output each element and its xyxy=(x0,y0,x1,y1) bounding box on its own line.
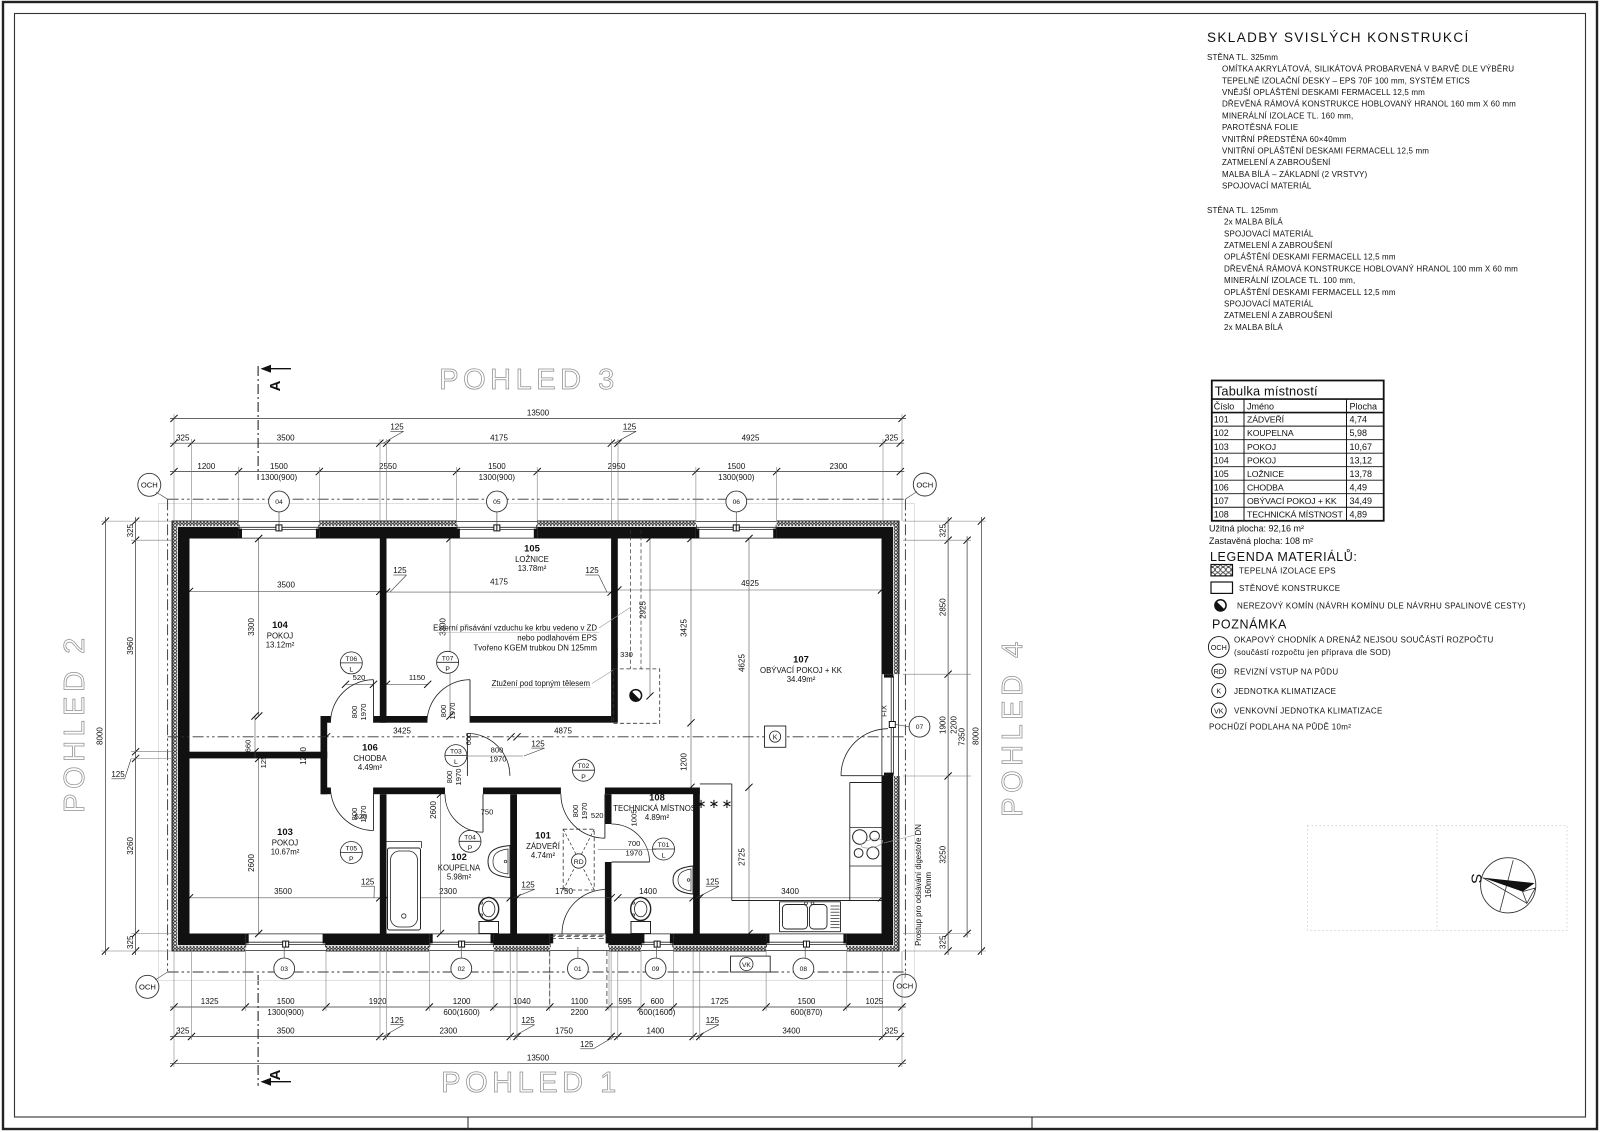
svg-text:104: 104 xyxy=(272,619,288,630)
svg-text:VK: VK xyxy=(742,962,751,969)
svg-text:1970: 1970 xyxy=(448,703,457,720)
svg-text:3300: 3300 xyxy=(247,618,256,636)
window 03 bottom wall xyxy=(245,933,326,952)
axis circle 07 xyxy=(896,716,930,737)
window 06 top wall xyxy=(696,520,777,539)
svg-text:3250: 3250 xyxy=(938,845,947,863)
legend wall box xyxy=(1211,582,1233,593)
chimney symbol xyxy=(630,690,642,702)
svg-text:660: 660 xyxy=(244,740,253,753)
svg-text:4.74m²: 4.74m² xyxy=(531,851,556,860)
svg-text:ZATMELENÍ A ZABROUŠENÍ: ZATMELENÍ A ZABROUŠENÍ xyxy=(1224,311,1333,320)
svg-text:800: 800 xyxy=(439,705,448,718)
svg-text:325: 325 xyxy=(938,935,947,949)
svg-text:325: 325 xyxy=(938,523,947,537)
svg-text:1200: 1200 xyxy=(299,747,308,765)
svg-text:KOUPELNA: KOUPELNA xyxy=(438,864,481,873)
svg-text:S: S xyxy=(1468,873,1485,883)
dim room105 125 right xyxy=(585,566,607,592)
FIX window and terrace door right wall xyxy=(880,674,900,776)
svg-text:LOŽNICE: LOŽNICE xyxy=(1247,469,1284,479)
door T03 label xyxy=(467,746,523,764)
svg-text:T03: T03 xyxy=(450,749,462,756)
dim room103 2600 xyxy=(247,755,262,937)
dim room107 3425-1200 xyxy=(680,535,695,791)
svg-text:4.89m²: 4.89m² xyxy=(645,813,670,822)
compass rose xyxy=(1468,858,1536,913)
svg-text:L: L xyxy=(662,853,666,860)
svg-text:2300: 2300 xyxy=(439,1027,457,1036)
svg-text:4625: 4625 xyxy=(738,654,747,672)
svg-text:3500: 3500 xyxy=(274,887,292,896)
washbasin room102 xyxy=(488,846,510,878)
svg-text:520: 520 xyxy=(591,811,604,820)
svg-text:Prostup pro odsávání digestoře: Prostup pro odsávání digestoře DN xyxy=(914,824,923,946)
room label 101 ZADVERI xyxy=(526,830,561,861)
dim room108 125 leader xyxy=(697,877,720,897)
svg-text:POKOJ: POKOJ xyxy=(1247,442,1276,452)
svg-text:POKOJ: POKOJ xyxy=(272,839,299,848)
dim bottom rowB 125 leader 1 xyxy=(383,1016,404,1037)
dim room108 1400 xyxy=(614,887,697,901)
svg-text:P: P xyxy=(349,856,354,863)
window 04 top wall xyxy=(239,520,320,539)
svg-text:∗∗∗: ∗∗∗ xyxy=(696,796,735,811)
svg-text:05: 05 xyxy=(493,499,501,506)
svg-text:7350: 7350 xyxy=(957,727,966,745)
svg-text:ZÁDVEŘÍ: ZÁDVEŘÍ xyxy=(526,842,561,851)
dim room102 2300 xyxy=(383,887,514,901)
svg-text:106: 106 xyxy=(1214,482,1229,492)
svg-text:4.49m²: 4.49m² xyxy=(358,763,383,772)
svg-text:2600: 2600 xyxy=(247,854,256,872)
dim room105 4175 xyxy=(383,578,615,596)
svg-text:330: 330 xyxy=(620,650,633,659)
svg-text:OMÍTKA AKRYLÁTOVÁ, SILIKÁTOVÁ: OMÍTKA AKRYLÁTOVÁ, SILIKÁTOVÁ PROBARVENÁ… xyxy=(1222,65,1514,74)
svg-text:160mm: 160mm xyxy=(924,872,933,898)
partition wall 101-108 lower xyxy=(605,862,612,934)
svg-text:600: 600 xyxy=(650,997,664,1006)
dim room105 3300 xyxy=(439,535,454,720)
svg-text:3500: 3500 xyxy=(277,1027,295,1036)
svg-text:08: 08 xyxy=(800,966,808,973)
note stiffening text xyxy=(491,670,613,688)
spec block wall 325mm xyxy=(1207,53,1516,191)
axis circle 09 xyxy=(645,947,666,979)
total area lines xyxy=(1209,524,1313,547)
dim room107 2925 xyxy=(639,535,654,700)
svg-text:04: 04 xyxy=(275,499,283,506)
svg-text:TEPELNÁ IZOLACE EPS: TEPELNÁ IZOLACE EPS xyxy=(1239,567,1336,576)
svg-text:1325: 1325 xyxy=(201,997,219,1006)
svg-text:RD: RD xyxy=(1214,667,1224,676)
svg-text:Tabulka místností: Tabulka místností xyxy=(1215,383,1318,398)
chimney dashed enclosure xyxy=(613,669,659,723)
svg-text:13500: 13500 xyxy=(527,409,550,418)
svg-text:4175: 4175 xyxy=(490,433,508,442)
svg-text:Užitná plocha: 92,16 m²: Užitná plocha: 92,16 m² xyxy=(1209,524,1304,534)
svg-text:125: 125 xyxy=(521,1016,535,1025)
svg-text:1725: 1725 xyxy=(711,997,729,1006)
svg-text:VNITŘNÍ OPLÁŠTĚNÍ DESKAMI FERM: VNITŘNÍ OPLÁŠTĚNÍ DESKAMI FERMACELL 12,5… xyxy=(1222,146,1429,155)
dim T06 520 xyxy=(342,673,377,688)
svg-text:VENKOVNÍ JEDNOTKA KLIMATIZACE: VENKOVNÍ JEDNOTKA KLIMATIZACE xyxy=(1234,707,1383,716)
svg-text:3500: 3500 xyxy=(277,581,295,590)
svg-text:2200: 2200 xyxy=(950,716,959,734)
dim left inner chain xyxy=(126,517,139,955)
svg-text:RD: RD xyxy=(574,859,584,866)
svg-text:13.12m²: 13.12m² xyxy=(266,641,295,650)
note exterior air supply text xyxy=(433,607,631,652)
svg-text:VNITŘNÍ PŘEDSTĚNA 60×40mm: VNITŘNÍ PŘEDSTĚNA 60×40mm xyxy=(1222,135,1347,144)
dim bottom rowC 13500 xyxy=(170,1054,906,1067)
svg-text:1005: 1005 xyxy=(630,810,639,827)
svg-text:JEDNOTKA KLIMATIZACE: JEDNOTKA KLIMATIZACE xyxy=(1234,687,1336,696)
svg-text:2300: 2300 xyxy=(439,887,457,896)
svg-text:8000: 8000 xyxy=(972,727,981,745)
room label 107 OBYVACI POKOJ xyxy=(760,654,843,685)
svg-text:1750: 1750 xyxy=(555,1027,573,1036)
note K symbol xyxy=(1212,684,1226,698)
spec block wall 125mm xyxy=(1207,206,1518,332)
door T01 label xyxy=(598,839,656,858)
svg-text:125: 125 xyxy=(706,877,720,886)
air-conditioning unit K xyxy=(765,726,786,747)
svg-text:SPOJOVACÍ MATERIÁL: SPOJOVACÍ MATERIÁL xyxy=(1224,299,1314,308)
svg-text:3425: 3425 xyxy=(393,726,411,735)
svg-text:K: K xyxy=(1216,687,1221,696)
svg-text:OCH: OCH xyxy=(896,982,913,991)
room table Tabulka mistnosti xyxy=(1212,381,1384,521)
room label 104 POKOJ xyxy=(266,619,295,650)
svg-text:Externí přisávání vzduchu ke k: Externí přisávání vzduchu ke krbu vedeno… xyxy=(433,623,597,632)
svg-text:10,67: 10,67 xyxy=(1350,442,1373,452)
dim room107 4925 xyxy=(614,579,885,593)
axis circle 08 xyxy=(793,947,814,979)
svg-text:3400: 3400 xyxy=(781,887,799,896)
window 05 top wall xyxy=(457,520,538,539)
svg-text:125: 125 xyxy=(585,566,599,575)
svg-text:1970: 1970 xyxy=(454,769,463,786)
dim room102 2600 xyxy=(429,791,444,938)
dotted placeholder box xyxy=(1308,826,1568,931)
svg-text:NEREZOVÝ KOMÍN (NÁVRH KOMÍNU D: NEREZOVÝ KOMÍN (NÁVRH KOMÍNU DLE NÁVRHU … xyxy=(1237,602,1526,611)
exterior wall ring with EPS insulation hatch xyxy=(172,521,899,951)
svg-text:09: 09 xyxy=(652,966,660,973)
terrace door swing xyxy=(841,729,888,776)
svg-text:125: 125 xyxy=(706,1016,720,1025)
svg-text:TECHNICKÁ MÍSTNOST: TECHNICKÁ MÍSTNOST xyxy=(613,804,701,813)
svg-text:TECHNICKÁ MÍSTNOST: TECHNICKÁ MÍSTNOST xyxy=(1247,509,1343,519)
svg-text:1400: 1400 xyxy=(647,1027,665,1036)
svg-text:13,78: 13,78 xyxy=(1350,469,1373,479)
svg-text:03: 03 xyxy=(280,966,288,973)
svg-text:2x MALBA BÍLÁ: 2x MALBA BÍLÁ xyxy=(1224,323,1283,332)
svg-text:Zastavěná plocha: 108 m²: Zastavěná plocha: 108 m² xyxy=(1209,536,1313,546)
legend chimney icon xyxy=(1215,600,1226,611)
OCH circle bottom left xyxy=(136,972,168,998)
svg-text:108: 108 xyxy=(649,792,665,803)
dim left 125 leader xyxy=(111,759,131,779)
svg-text:2950: 2950 xyxy=(608,462,626,471)
svg-text:3260: 3260 xyxy=(126,837,135,855)
chimney duct dashed lines xyxy=(631,530,642,669)
svg-text:OCH: OCH xyxy=(139,983,156,992)
svg-text:2725: 2725 xyxy=(738,848,747,866)
title block stub line left xyxy=(467,1117,469,1129)
svg-text:1100: 1100 xyxy=(571,997,589,1006)
svg-text:10.67m²: 10.67m² xyxy=(271,848,300,857)
dim room101 1750 xyxy=(513,887,614,901)
svg-text:325: 325 xyxy=(885,433,899,442)
dim room104 3300 xyxy=(247,535,262,720)
svg-text:KOUPELNA: KOUPELNA xyxy=(1247,428,1294,438)
wall 101-108 top seg xyxy=(605,788,700,795)
svg-text:125: 125 xyxy=(531,739,545,748)
svg-text:1025: 1025 xyxy=(865,997,883,1006)
svg-text:1300(900): 1300(900) xyxy=(718,473,755,482)
svg-text:1500: 1500 xyxy=(798,997,816,1006)
svg-text:101: 101 xyxy=(1214,415,1229,425)
svg-text:POZNÁMKA: POZNÁMKA xyxy=(1212,617,1287,632)
svg-text:125: 125 xyxy=(623,423,637,432)
svg-text:3500: 3500 xyxy=(277,433,295,442)
svg-text:125: 125 xyxy=(111,770,125,779)
svg-text:CHODBA: CHODBA xyxy=(1247,482,1284,492)
svg-text:8000: 8000 xyxy=(96,727,105,745)
svg-text:5.98m²: 5.98m² xyxy=(447,873,472,882)
svg-text:1150: 1150 xyxy=(409,673,425,682)
svg-text:STĚNA TL. 325mm: STĚNA TL. 325mm xyxy=(1207,53,1278,62)
svg-text:1300(900): 1300(900) xyxy=(267,1008,304,1017)
svg-text:P: P xyxy=(445,666,450,673)
svg-text:POKOJ: POKOJ xyxy=(267,632,294,641)
svg-text:2600: 2600 xyxy=(429,801,438,819)
svg-text:T07: T07 xyxy=(442,655,454,662)
svg-text:1500: 1500 xyxy=(727,462,745,471)
svg-text:3400: 3400 xyxy=(782,1027,800,1036)
svg-text:101: 101 xyxy=(535,830,551,841)
svg-text:1200: 1200 xyxy=(453,997,471,1006)
room label 108 TECHNICKA MISTNOST xyxy=(613,792,701,823)
dim right inner chain xyxy=(938,517,951,955)
axis circle 01 xyxy=(568,947,589,979)
room label 102 KOUPELNA xyxy=(438,851,481,882)
dim bottom rowB 125 leader 3 xyxy=(697,1016,720,1037)
corridor bottom wall seg b xyxy=(374,788,446,795)
svg-text:1400: 1400 xyxy=(639,887,657,896)
svg-text:125: 125 xyxy=(361,877,375,886)
svg-text:OPLÁŠTĚNÍ DESKAMI FERMACELL 12: OPLÁŠTĚNÍ DESKAMI FERMACELL 12,5 mm xyxy=(1224,253,1396,262)
svg-text:125: 125 xyxy=(390,423,404,432)
svg-text:4925: 4925 xyxy=(741,579,759,588)
svg-text:OCH: OCH xyxy=(1211,643,1227,652)
svg-text:125: 125 xyxy=(393,566,407,575)
svg-text:106: 106 xyxy=(362,742,378,753)
dim right 7350 xyxy=(957,536,970,937)
svg-text:STĚNOVÉ KONSTRUKCE: STĚNOVÉ KONSTRUKCE xyxy=(1239,584,1340,593)
svg-text:1200: 1200 xyxy=(197,462,215,471)
window 08 kitchen bottom wall xyxy=(766,933,847,952)
svg-text:DŘEVĚNÁ RÁMOVÁ KONSTRUKCE HOBL: DŘEVĚNÁ RÁMOVÁ KONSTRUKCE HOBLOVANÝ HRAN… xyxy=(1222,100,1516,109)
svg-text:PAROTĚSNÁ FOLIE: PAROTĚSNÁ FOLIE xyxy=(1222,123,1298,132)
OCH circle top right xyxy=(905,473,936,499)
attic access RD dashed box xyxy=(563,829,594,890)
corridor bottom wall seg a xyxy=(321,788,331,795)
svg-text:TEPELNĚ IZOLAČNÍ DESKY – EPS 7: TEPELNĚ IZOLAČNÍ DESKY – EPS 70F 100 mm,… xyxy=(1222,76,1470,85)
room label 106 CHODBA xyxy=(353,742,387,773)
svg-text:595: 595 xyxy=(618,997,632,1006)
svg-text:T05: T05 xyxy=(345,846,357,853)
svg-text:4,49: 4,49 xyxy=(1350,482,1368,492)
svg-text:600(870): 600(870) xyxy=(790,1008,822,1017)
svg-text:ZÁDVEŘÍ: ZÁDVEŘÍ xyxy=(1247,415,1285,425)
dim kitchen 3400 xyxy=(696,887,885,901)
dim right outer 8000 xyxy=(972,517,985,955)
svg-text:SKLADBY SVISLÝCH KONSTRUKCÍ: SKLADBY SVISLÝCH KONSTRUKCÍ xyxy=(1207,30,1470,45)
axis circle 06 xyxy=(726,491,747,524)
svg-text:POKOJ: POKOJ xyxy=(1247,455,1276,465)
svg-text:108: 108 xyxy=(1214,509,1229,519)
svg-text:SPOJOVACÍ MATERIÁL: SPOJOVACÍ MATERIÁL xyxy=(1222,182,1312,191)
note RD symbol xyxy=(1212,664,1226,678)
svg-text:POHLED 4: POHLED 4 xyxy=(997,637,1029,816)
note OCH symbol xyxy=(1208,637,1229,658)
svg-text:POHLED 1: POHLED 1 xyxy=(441,1067,620,1099)
svg-text:FIX: FIX xyxy=(880,705,889,717)
dim top row3 xyxy=(170,462,904,482)
dim top row2 125 leader left xyxy=(383,423,404,444)
svg-text:REVIZNÍ VSTUP NA PŮDU: REVIZNÍ VSTUP NA PŮDU xyxy=(1234,667,1338,676)
door T04 corridor-102 xyxy=(445,769,483,853)
svg-text:STĚNA TL. 125mm: STĚNA TL. 125mm xyxy=(1207,206,1278,215)
svg-text:MINERÁLNÍ IZOLACE TL. 100 mm,: MINERÁLNÍ IZOLACE TL. 100 mm, xyxy=(1224,276,1355,285)
svg-text:2925: 2925 xyxy=(639,601,648,619)
svg-text:Ztužení pod topným tělesem: Ztužení pod topným tělesem xyxy=(492,679,590,688)
entrance porch dashed lines xyxy=(550,937,607,1009)
svg-text:325: 325 xyxy=(126,935,135,949)
svg-text:102: 102 xyxy=(451,851,467,862)
svg-text:1300(900): 1300(900) xyxy=(261,473,298,482)
dim room104 3500 xyxy=(186,581,384,595)
svg-text:VNĚJŠÍ OPLÁŠTĚNÍ DESKAMI FERMA: VNĚJŠÍ OPLÁŠTĚNÍ DESKAMI FERMACELL 12,5 … xyxy=(1222,88,1425,97)
legend EPS hatch box xyxy=(1211,565,1233,576)
bathtub room102 xyxy=(387,842,422,931)
svg-text:800: 800 xyxy=(350,808,359,821)
dim bottom rowB 125 leader 2 xyxy=(514,1016,536,1037)
svg-text:A: A xyxy=(267,1069,284,1080)
window 02 bottom wall xyxy=(429,933,494,952)
corridor left wall xyxy=(321,716,328,794)
svg-text:Jméno: Jméno xyxy=(1247,402,1274,412)
dim T07 1150 xyxy=(383,673,431,688)
svg-text:06: 06 xyxy=(733,499,741,506)
svg-text:nebo podlahovém EPS: nebo podlahovém EPS xyxy=(517,634,597,643)
svg-text:1970: 1970 xyxy=(626,849,643,858)
svg-text:1920: 1920 xyxy=(369,997,387,1006)
extension lines bottom xyxy=(174,951,902,1067)
svg-text:2x MALBA BÍLÁ: 2x MALBA BÍLÁ xyxy=(1224,218,1283,227)
svg-text:(součástí rozpočtu jen příprav: (součástí rozpočtu jen příprava dle SOD) xyxy=(1234,648,1391,657)
dim top row2 125 leader right xyxy=(615,423,637,444)
door T05 corridor-103 xyxy=(331,788,374,864)
svg-text:104: 104 xyxy=(1214,455,1229,465)
partition wall 105-107 xyxy=(611,539,618,723)
svg-text:Plocha: Plocha xyxy=(1350,402,1378,412)
partition wall 104-105 xyxy=(380,539,387,723)
svg-text:LEGENDA MATERIÁLŮ:: LEGENDA MATERIÁLŮ: xyxy=(1210,549,1357,564)
dim room103 3500 xyxy=(186,887,384,901)
svg-text:800: 800 xyxy=(571,805,580,818)
svg-text:LOŽNICE: LOŽNICE xyxy=(515,555,549,564)
note duct passage text xyxy=(860,824,933,946)
svg-text:1500: 1500 xyxy=(488,462,506,471)
dim bottom rowA xyxy=(170,997,906,1017)
window 09 bottom wall xyxy=(641,933,673,952)
svg-text:VK: VK xyxy=(1214,706,1224,715)
toilet room102 xyxy=(479,898,499,934)
svg-text:34,49: 34,49 xyxy=(1350,496,1373,506)
entrance door opening bottom wall xyxy=(550,933,609,952)
svg-text:P: P xyxy=(581,774,586,781)
svg-text:4,74: 4,74 xyxy=(1350,415,1368,425)
svg-text:13.78m²: 13.78m² xyxy=(518,564,547,573)
svg-text:1970: 1970 xyxy=(359,704,368,721)
svg-text:POCHŮZÍ PODLAHA NA PŮDĚ 10m²: POCHŮZÍ PODLAHA NA PŮDĚ 10m² xyxy=(1209,722,1351,731)
svg-text:01: 01 xyxy=(574,966,582,973)
svg-text:107: 107 xyxy=(1214,496,1229,506)
svg-text:105: 105 xyxy=(1214,469,1229,479)
svg-text:T04: T04 xyxy=(464,834,476,841)
partition wall 103-102 xyxy=(380,794,387,933)
svg-text:1970: 1970 xyxy=(580,803,589,820)
eaves walkway dash-dot outline xyxy=(168,499,906,972)
svg-text:700: 700 xyxy=(628,839,641,848)
svg-text:105: 105 xyxy=(524,543,540,554)
svg-text:800: 800 xyxy=(491,746,504,755)
section line A bottom xyxy=(258,975,291,1086)
corridor top wall seg c xyxy=(470,716,611,723)
room label 103 POKOJ xyxy=(271,826,300,857)
axis circle 02 xyxy=(451,947,472,979)
svg-text:125: 125 xyxy=(390,1016,404,1025)
section line A top xyxy=(258,365,291,480)
washbasin room108 xyxy=(673,866,693,894)
corridor top wall seg b xyxy=(374,716,428,723)
svg-text:325: 325 xyxy=(885,1027,899,1036)
svg-text:OBÝVACÍ POKOJ + KK: OBÝVACÍ POKOJ + KK xyxy=(1247,496,1337,506)
svg-text:3425: 3425 xyxy=(680,619,689,637)
door T01 101-108 xyxy=(612,824,675,862)
svg-text:600(1600): 600(1600) xyxy=(639,1008,676,1017)
svg-text:2550: 2550 xyxy=(379,462,397,471)
dim 125 center xyxy=(524,739,545,756)
svg-text:L: L xyxy=(454,759,458,766)
svg-text:107: 107 xyxy=(793,654,809,665)
svg-text:1900: 1900 xyxy=(938,716,947,734)
svg-text:L: L xyxy=(349,667,353,674)
svg-text:07: 07 xyxy=(916,724,924,731)
svg-text:T06: T06 xyxy=(345,656,357,663)
svg-text:325: 325 xyxy=(176,433,190,442)
title block stub line right xyxy=(1031,1117,1033,1129)
dim corridor 660-125 xyxy=(244,712,269,768)
kitchen stove xyxy=(853,830,880,859)
door T07 corridor-105 xyxy=(427,651,470,722)
svg-text:325: 325 xyxy=(126,523,135,537)
svg-text:125: 125 xyxy=(521,880,535,889)
svg-text:K: K xyxy=(773,734,778,741)
